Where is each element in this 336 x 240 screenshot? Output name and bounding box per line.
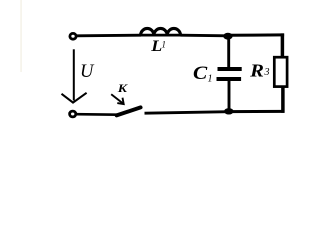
capacitor C1 — [217, 36, 242, 112]
label L1 — [150, 38, 166, 55]
node A (top junction) — [223, 33, 232, 40]
svg-text:3: 3 — [264, 67, 270, 78]
wire inductor to node A — [181, 34, 229, 37]
svg-text:K: K — [117, 81, 129, 95]
svg-text:1: 1 — [162, 40, 167, 50]
wire right vertical lower — [281, 86, 285, 113]
switch K actuate arrow — [111, 94, 124, 104]
terminal bottom input — [70, 111, 76, 117]
label R3 — [249, 61, 269, 81]
wire right vertical upper — [281, 33, 285, 58]
svg-text:R: R — [249, 61, 264, 81]
switch K blade — [117, 107, 141, 115]
svg-text:U: U — [80, 62, 95, 82]
resistor R3 — [274, 57, 287, 86]
source voltage arrow U — [62, 49, 87, 102]
wire bottom terminal to switch — [76, 113, 117, 116]
wire top terminal to inductor — [77, 34, 142, 37]
terminal top input — [70, 33, 76, 39]
node B (bottom junction) — [224, 108, 233, 114]
wire bottom-right corner to node B — [229, 110, 285, 113]
wire node A to top-right corner — [228, 33, 284, 36]
inductor L1 — [141, 28, 181, 35]
svg-text:C: C — [193, 64, 208, 84]
wire switch to node B — [145, 112, 229, 114]
label C1 — [193, 64, 213, 85]
svg-text:1: 1 — [208, 74, 213, 85]
scan artifact line — [20, 0, 21, 72]
